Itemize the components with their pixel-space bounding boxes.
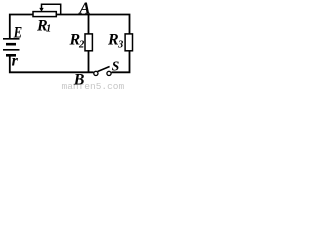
svg-text:2: 2 bbox=[78, 40, 85, 51]
svg-text:3: 3 bbox=[117, 40, 123, 51]
svg-text:S: S bbox=[112, 58, 120, 73]
svg-text:manfen5.com: manfen5.com bbox=[62, 81, 125, 90]
svg-text:B: B bbox=[73, 72, 85, 89]
svg-text:r: r bbox=[12, 53, 19, 70]
svg-text:E: E bbox=[13, 24, 22, 42]
svg-text:A: A bbox=[78, 0, 90, 18]
svg-text:1: 1 bbox=[46, 24, 51, 35]
